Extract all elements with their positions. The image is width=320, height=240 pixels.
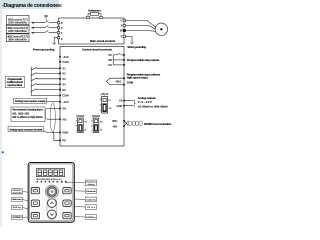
label box analog input power supply <box>14 98 47 103</box>
svg-text:Analog input common terminal: Analog input common terminal <box>9 129 42 132</box>
svg-text:program key: program key <box>12 192 22 194</box>
svg-text:+24V: +24V <box>62 55 69 59</box>
svg-text:GND: GND <box>117 104 123 108</box>
svg-text:Control circuit terminals: Control circuit terminals <box>82 48 112 52</box>
left label boxes <box>12 189 23 220</box>
wire U to motor <box>126 21 156 28</box>
tiny texts <box>7 9 172 143</box>
svg-text:AI1: 0(2)~10V: AI1: 0(2)~10V <box>12 112 29 115</box>
keypad outer <box>28 163 74 223</box>
wire AI2 <box>47 118 60 120</box>
wire S with arrow <box>34 27 45 29</box>
jumper AI2 <box>91 115 103 133</box>
svg-text:X4: X4 <box>62 82 66 86</box>
section bullet <box>2 151 4 153</box>
shield drain to PE <box>53 131 60 140</box>
terminal U <box>123 19 125 21</box>
wire +10V <box>47 101 61 103</box>
power grounding wire <box>54 38 57 43</box>
page left edge tint <box>0 0 2 227</box>
control terminal dots left <box>59 56 61 141</box>
svg-text:COM: COM <box>62 94 69 98</box>
svg-text:DOWN key: DOWN key <box>86 217 96 219</box>
switch X2 <box>31 73 36 76</box>
breaker QF pole 1 <box>45 20 49 22</box>
label box analog input common <box>8 127 43 132</box>
power supply box row1 <box>6 16 29 25</box>
braking resistor leads <box>88 14 101 18</box>
svg-text:X1: X1 <box>62 66 66 70</box>
terminal V <box>123 24 125 26</box>
svg-text:U: U <box>120 19 122 23</box>
switch X1 <box>31 67 36 70</box>
power supply box row2 <box>6 25 29 33</box>
svg-text:Main circuit terminal: Main circuit terminal <box>90 39 115 43</box>
svg-text:Potentiometer: Potentiometer <box>86 190 96 193</box>
control circuit box <box>60 47 124 147</box>
terminal W <box>123 29 125 31</box>
motor grounding wire <box>126 37 133 43</box>
svg-text:Braking resistor: Braking resistor <box>88 9 101 13</box>
terminal T <box>57 32 59 34</box>
terminal PE input <box>57 37 59 39</box>
terminal R <box>57 22 59 24</box>
braking resistor body <box>91 12 99 15</box>
terminal PE output <box>123 35 125 37</box>
svg-text:X3: X3 <box>62 77 66 81</box>
wire R with arrow <box>34 22 45 24</box>
relay contact symbol <box>113 55 116 65</box>
switch X4 <box>31 83 36 86</box>
shielded cable ellipse <box>50 103 55 131</box>
down button <box>48 210 57 219</box>
title highlight band <box>0 0 59 9</box>
indicator leds <box>37 181 67 183</box>
breaker QF link dash <box>45 18 47 21</box>
svg-text:RC: RC <box>108 53 112 57</box>
wire T with arrow <box>34 32 45 34</box>
svg-text:485+: 485+ <box>112 119 118 123</box>
svg-text:RS485 Communication: RS485 Communication <box>144 122 172 126</box>
brace to AI wires <box>45 109 46 119</box>
svg-text:Programmable relay outputs: Programmable relay outputs <box>127 58 160 62</box>
keypad right callouts <box>67 183 86 217</box>
svg-text:I:0~20mA or 0(4)~20mA: I:0~20mA or 0(4)~20mA <box>138 104 168 108</box>
wire V to motor <box>126 26 156 30</box>
svg-text:high speed output: high speed output <box>127 75 148 79</box>
svg-text:V:0~10V: V:0~10V <box>138 100 152 104</box>
breaker QF pole 2 <box>45 25 49 27</box>
label box two channel analog input <box>11 107 45 122</box>
svg-text:RUN FWD REV ALM Hz A V: RUN FWD REV ALM Hz A V <box>36 178 62 181</box>
svg-text:X5: X5 <box>62 88 66 92</box>
svg-text:RA: RA <box>108 63 112 67</box>
svg-text:E: E <box>121 35 123 39</box>
svg-text:Two channel of analog input: Two channel of analog input : <box>12 109 44 112</box>
control terminal dots right <box>123 54 125 127</box>
switch X3 <box>31 78 36 81</box>
analog output wire GND <box>124 105 133 107</box>
jumper AI1 <box>76 115 88 133</box>
wire W to motor <box>126 30 156 33</box>
svg-text:COM: COM <box>62 60 69 64</box>
power supply box row3 <box>6 34 29 42</box>
svg-text:Shift/monitor: Shift/monitor <box>12 198 22 201</box>
svg-text:PE: PE <box>62 139 66 143</box>
svg-text:(J2)AI1: (J2)AI1 <box>76 115 85 118</box>
svg-text:S: S <box>61 26 63 30</box>
jumper AO <box>100 93 112 113</box>
svg-text:RB: RB <box>108 58 112 62</box>
svg-text:220V 50Hz/60Hz: 220V 50Hz/60Hz <box>8 29 28 33</box>
svg-text:AI2: 0~20mA or 0(4)~20mA: AI2: 0~20mA or 0(4)~20mA <box>12 116 43 119</box>
svg-text:-Diagrama de conexiones:: -Diagrama de conexiones: <box>2 3 63 9</box>
svg-text:STOP/RESET: STOP/RESET <box>12 217 22 219</box>
svg-text:485-: 485- <box>113 124 118 128</box>
svg-text:220V 50Hz/60Hz: 220V 50Hz/60Hz <box>8 21 28 25</box>
up button <box>48 199 57 208</box>
terminal PB <box>100 16 102 18</box>
motor M <box>155 23 167 35</box>
svg-text:Analog input power supply: Analog input power supply <box>15 99 47 103</box>
svg-text:V: V <box>121 24 123 28</box>
svg-text:380V 50Hz/60Hz: 380V 50Hz/60Hz <box>8 38 28 42</box>
keypad buttons left column <box>31 187 39 218</box>
brace analog outputs <box>133 100 135 106</box>
input switch bus <box>31 67 60 96</box>
svg-text:HDO: HDO <box>116 80 122 83</box>
keypad display <box>36 169 64 177</box>
svg-text:RUN key: RUN key <box>13 207 22 209</box>
svg-text:Analog outputs: Analog outputs <box>138 96 157 100</box>
svg-text:(J4)A0: (J4)A0 <box>101 93 109 96</box>
svg-text:Motor grounding: Motor grounding <box>128 45 147 49</box>
wire AI1 <box>47 107 60 109</box>
svg-text:(J3)AI2: (J3)AI2 <box>92 115 101 118</box>
svg-text:E: E <box>61 37 63 41</box>
knob <box>45 185 58 198</box>
terminal P+ <box>87 16 89 18</box>
switch X5 <box>31 89 36 92</box>
label box multifunctional input <box>5 77 24 88</box>
svg-text:Confirm key: Confirm key <box>86 199 96 201</box>
svg-text:R: R <box>61 21 63 25</box>
svg-text:input terminal: input terminal <box>8 84 23 87</box>
analog output wire AO <box>124 100 133 102</box>
svg-text:QF: QF <box>45 15 49 18</box>
breaker QF pole 3 <box>45 30 49 32</box>
svg-text:+10V: +10V <box>62 100 69 104</box>
main circuit box <box>59 18 125 44</box>
terminal S <box>57 27 59 29</box>
svg-text:GND: GND <box>62 131 68 135</box>
svg-text:display: display <box>88 184 96 186</box>
svg-text:COM: COM <box>127 80 134 84</box>
up down capsule <box>47 197 57 219</box>
open collector HDO wedge <box>106 78 124 84</box>
svg-text:AI2: AI2 <box>62 117 67 121</box>
svg-text:X2: X2 <box>62 72 66 76</box>
rs485 twisted pair <box>124 121 129 126</box>
wire GND <box>43 131 60 133</box>
svg-text:A0: A0 <box>119 99 123 103</box>
svg-text:UP key: UP key <box>87 207 96 209</box>
right label boxes <box>85 180 96 219</box>
keypad left callouts <box>22 191 28 217</box>
svg-text:Power grounding: Power grounding <box>33 47 55 51</box>
svg-text:AI1: AI1 <box>62 107 67 111</box>
keypad buttons right column <box>63 187 71 218</box>
